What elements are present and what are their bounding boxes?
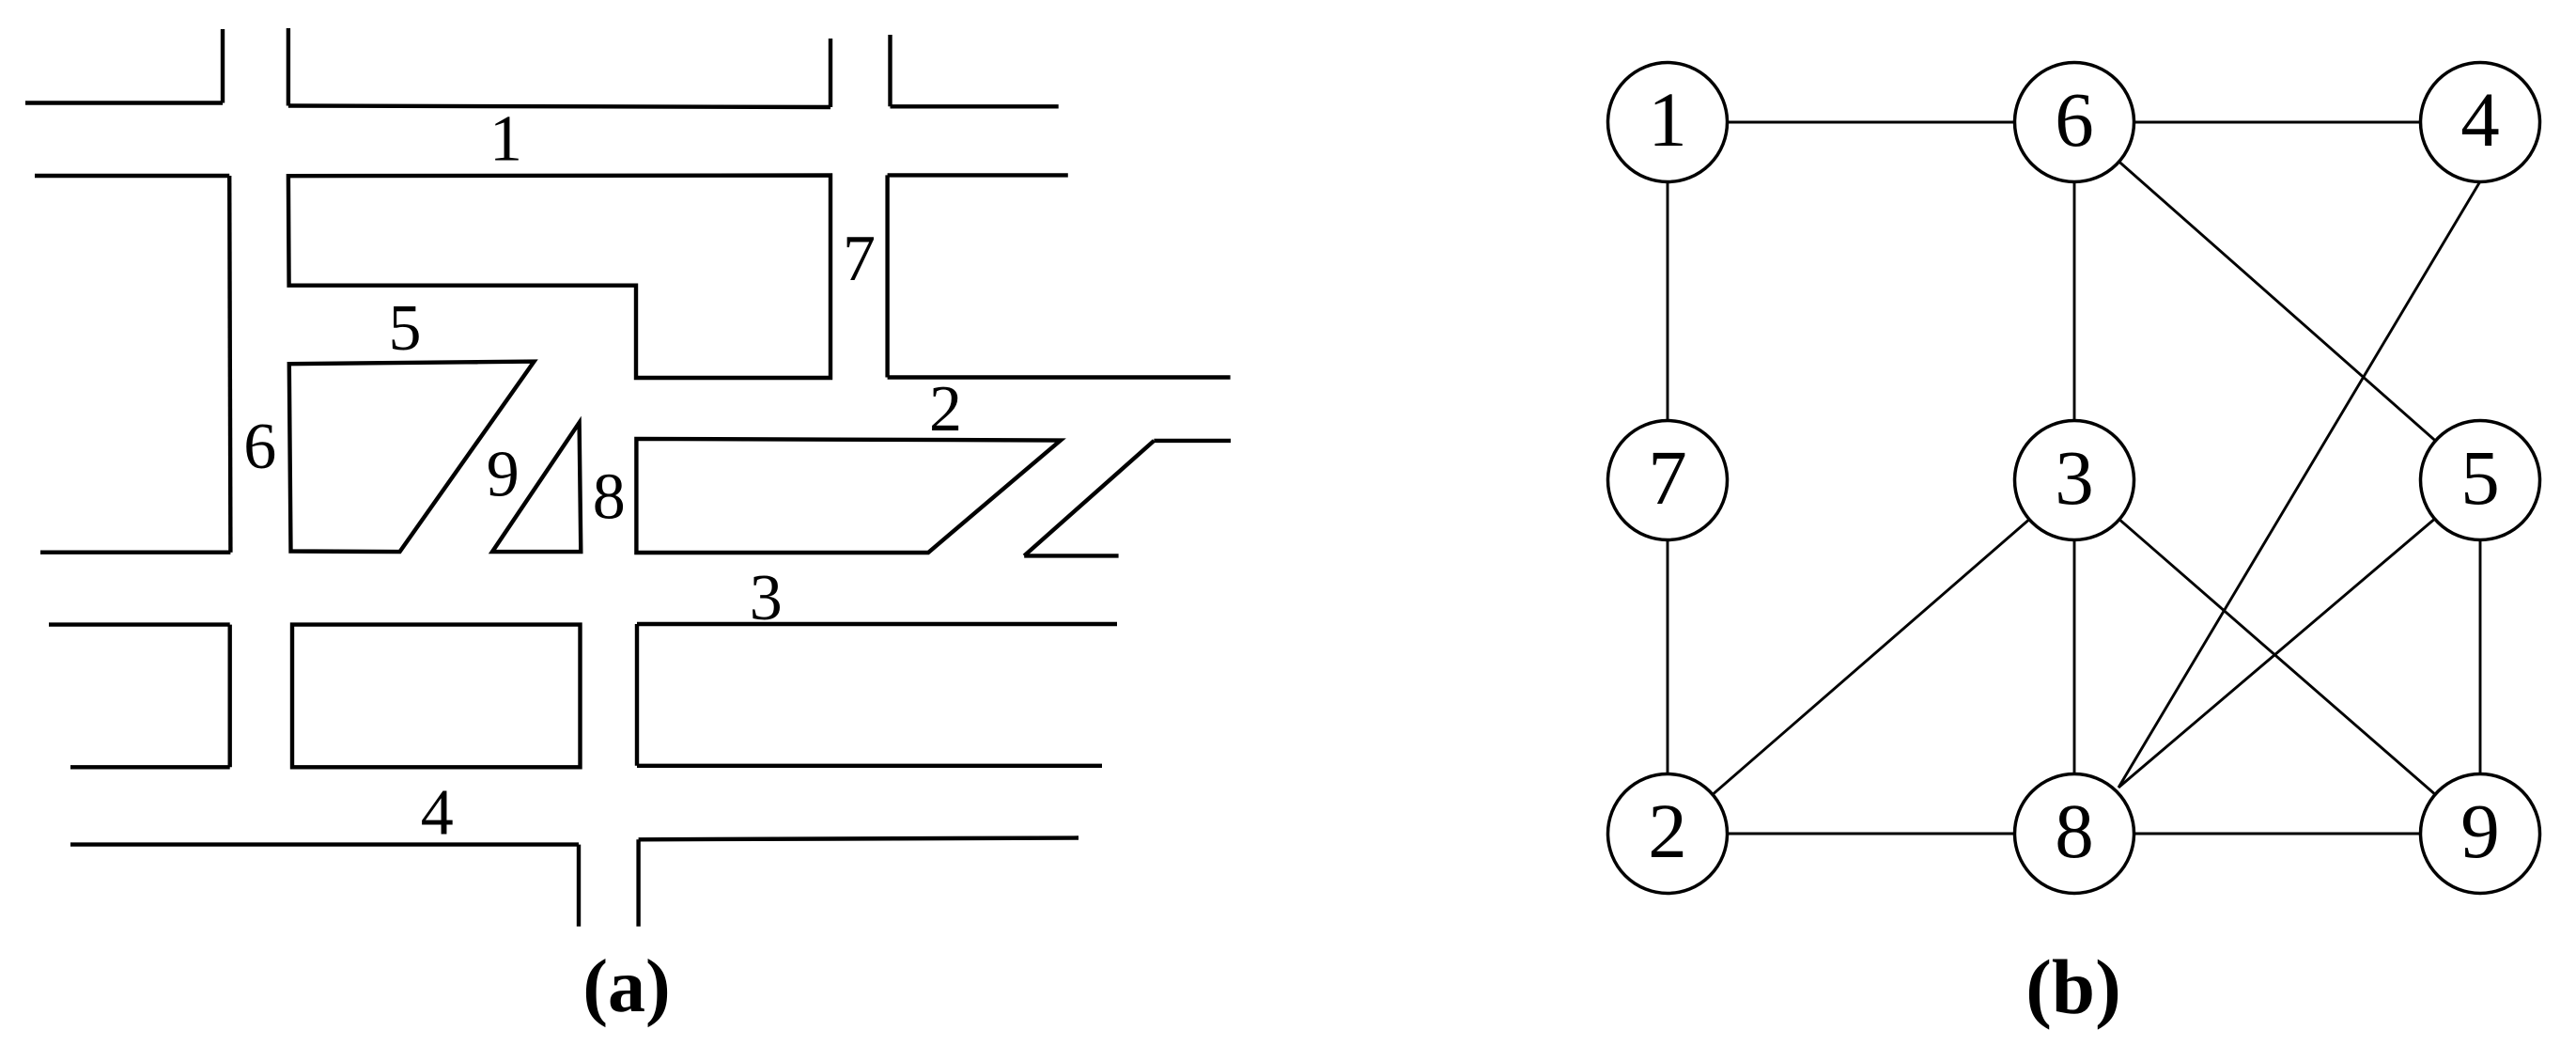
svg-text:8: 8 [2055, 788, 2094, 874]
wire: edge 2-3 [1668, 480, 2074, 834]
node 5 [2421, 421, 2540, 540]
wire: edge 6-4 [2074, 121, 2480, 124]
wire: edge 6-3 [2073, 122, 2076, 480]
svg-text:2: 2 [1648, 788, 1687, 874]
wire: edge 2-8 [1668, 833, 2074, 835]
node: street number labels of map (a) [243, 103, 962, 850]
node 3 [2015, 421, 2134, 540]
wire: street 7 left edge above street 1 [829, 39, 832, 107]
wire: street 7 right edge above street 1 [888, 35, 892, 106]
node: rectangular block between streets 3 and 4 [292, 625, 581, 768]
wire: top-left cross-street vertical stub [221, 29, 225, 103]
wire: street 4 bottom edge left portion [70, 842, 579, 846]
wire: street 3 bottom edge right portion [637, 622, 1117, 626]
wire: street 4 bottom edge right portion [639, 838, 1079, 840]
node 8 [2015, 774, 2134, 894]
svg-text:(b): (b) [2025, 944, 2120, 1030]
wire: street 1 top edge [288, 106, 830, 108]
wire: edge 3-9 [2074, 480, 2480, 834]
node: triangular block between streets 9 and 8 [492, 423, 581, 552]
wire: street 1 / street 6 corner vertical stub [287, 28, 290, 106]
wire: street 6 left edge [229, 176, 230, 553]
node 6 [2015, 63, 2134, 182]
graph (b) vertex number labels [1648, 76, 2500, 874]
wire: edge 8-9 [2074, 833, 2480, 835]
wire: edge 6-5 [2074, 122, 2480, 480]
svg-text:7: 7 [843, 223, 876, 295]
wire: right block left edge between streets 3 and 4 [635, 624, 639, 766]
wire: edge 4-8 [2118, 181, 2480, 788]
svg-text:7: 7 [1648, 434, 1687, 521]
svg-text:3: 3 [2055, 434, 2094, 521]
svg-text:1: 1 [489, 103, 522, 176]
wire: block bottom edge left of street 6 [40, 551, 230, 554]
wire: street 1 bottom edge right of street 7 [888, 173, 1068, 177]
svg-text:4: 4 [2460, 76, 2500, 163]
svg-text:9: 9 [487, 438, 520, 510]
wire: street 1 bottom edge left of street 6 [35, 174, 229, 178]
svg-text:5: 5 [389, 292, 422, 365]
node 4 [2421, 63, 2540, 182]
wire: right block bottom edge between streets 3 and 4 [637, 764, 1102, 768]
node 1 [1608, 63, 1728, 182]
wire: street 7 right edge below street 1 [885, 175, 889, 377]
wire: top-left horizontal street edge [25, 101, 223, 104]
wire: edge 3-8 [2073, 480, 2076, 834]
node: quadrilateral block between streets 5, 6 and 9 [289, 362, 535, 552]
svg-text:(a): (a) [582, 945, 670, 1028]
wire: edge 1-6 [1668, 121, 2074, 124]
svg-text:8: 8 [593, 461, 626, 534]
svg-text:5: 5 [2460, 434, 2500, 521]
wire: vertical street right edge below street 4 [636, 839, 640, 926]
graph (b) vertices [1608, 63, 2540, 894]
node 7 [1608, 421, 1728, 540]
svg-text:6: 6 [2055, 76, 2094, 163]
svg-text:1: 1 [1648, 76, 1687, 163]
wire: block bottom edge left of street 6 between streets 3 and 4 [70, 765, 230, 769]
wire: block right edge left of street 6 between streets 3 and 4 [227, 625, 231, 768]
svg-text:6: 6 [243, 411, 276, 483]
wire: edge 1-7 [1667, 122, 1669, 480]
wire: edge 5-9 [2479, 480, 2482, 834]
svg-text:2: 2 [929, 373, 962, 445]
graph (b) edges [1668, 122, 2480, 834]
wire: street 2 diagonal block top edge [1154, 439, 1231, 443]
wire: street 2 diagonal block bottom edge [1024, 554, 1118, 557]
node: L-shaped city block between streets 1, 5 and 7 [288, 176, 830, 379]
wire: street 2 top edge [888, 375, 1231, 379]
wire: street 1 top edge right of street 7 [891, 104, 1059, 108]
wire: edge 7-2 [1667, 480, 1669, 834]
node: trapezoid block between streets 2, 8 and 3 [636, 439, 1061, 553]
node 2 [1608, 774, 1728, 894]
svg-text:4: 4 [421, 777, 454, 850]
svg-text:3: 3 [750, 562, 783, 634]
wire: vertical street left edge below street 4 [577, 845, 581, 927]
wire: street 2 diagonal block slanted edge [1024, 441, 1154, 556]
wire: edge 5-8 [2118, 480, 2480, 788]
svg-text:9: 9 [2460, 788, 2500, 874]
node 9 [2421, 774, 2540, 894]
wire: block top edge left of street 6 between streets 3 and 4 [49, 622, 230, 626]
